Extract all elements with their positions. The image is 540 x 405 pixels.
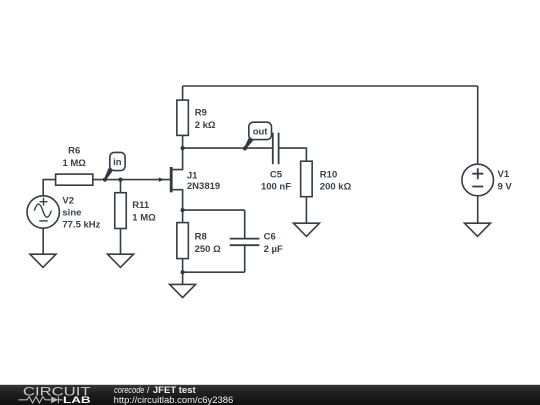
svg-text:77.5 kHz: 77.5 kHz bbox=[62, 220, 100, 231]
wire bottom rail C6 to R8 bbox=[183, 271, 245, 273]
svg-text:corecode: corecode bbox=[114, 385, 144, 395]
wire R8 top lead bbox=[182, 210, 184, 223]
svg-text:R8: R8 bbox=[195, 232, 207, 243]
voltage source V1 bbox=[462, 164, 513, 196]
resistor R9 bbox=[177, 100, 216, 135]
wire top rail bbox=[183, 85, 478, 87]
wire V2 to ground bbox=[42, 228, 44, 254]
svg-text:J1: J1 bbox=[187, 171, 198, 182]
node source junction dot bbox=[181, 208, 185, 212]
svg-text:250 Ω: 250 Ω bbox=[195, 244, 221, 255]
svg-text:V2: V2 bbox=[62, 195, 74, 206]
wire C6 bottom lead bbox=[244, 246, 246, 272]
resistor R10 bbox=[301, 161, 352, 197]
wire R6 left lead to V2 bbox=[43, 180, 55, 196]
node out junction dot bbox=[243, 146, 247, 150]
wire R9 bottom lead bbox=[182, 135, 184, 148]
ground (R11) bbox=[108, 254, 134, 267]
node R8 bottom junction dot bbox=[181, 270, 185, 274]
wire C6 top lead bbox=[244, 210, 246, 238]
node in (junction dot) bbox=[103, 178, 107, 182]
transistor J1 (N-JFET 2N3819) bbox=[159, 148, 220, 210]
svg-text:200 kΩ: 200 kΩ bbox=[320, 182, 352, 193]
wire V1 top lead bbox=[477, 86, 479, 164]
node R11 junction dot bbox=[118, 178, 122, 182]
ground (V1) bbox=[465, 223, 491, 236]
wire R11 top lead bbox=[120, 180, 122, 193]
capacitor C5 bbox=[261, 133, 291, 193]
resistor R8 bbox=[177, 223, 221, 259]
wire R10 to ground bbox=[305, 197, 307, 224]
capacitor C6 bbox=[230, 232, 283, 255]
svg-text:sine: sine bbox=[62, 207, 81, 218]
ground (R10) bbox=[293, 223, 319, 236]
svg-text:JFET test: JFET test bbox=[153, 385, 196, 395]
wire drain rail to C5 bbox=[183, 147, 273, 149]
svg-text:R9: R9 bbox=[195, 108, 207, 119]
svg-text:R10: R10 bbox=[320, 169, 337, 180]
svg-text:1 MΩ: 1 MΩ bbox=[132, 212, 156, 223]
svg-text:9 V: 9 V bbox=[498, 182, 513, 193]
resistor R6 bbox=[56, 146, 93, 186]
svg-text:V1: V1 bbox=[498, 169, 510, 180]
svg-text:C6: C6 bbox=[264, 232, 276, 243]
net flag out bbox=[244, 122, 271, 149]
wire R11 to ground bbox=[120, 229, 122, 255]
wire C5 to R10 bbox=[279, 148, 307, 161]
svg-text:C5: C5 bbox=[270, 169, 283, 180]
svg-text:2N3819: 2N3819 bbox=[187, 181, 220, 192]
svg-text:in: in bbox=[113, 157, 122, 168]
svg-text:R11: R11 bbox=[132, 200, 150, 211]
svg-text:1 MΩ: 1 MΩ bbox=[62, 158, 86, 169]
svg-text:100 nF: 100 nF bbox=[261, 182, 291, 193]
wire R8 node to ground bbox=[182, 272, 184, 284]
svg-text:out: out bbox=[253, 126, 269, 137]
svg-text:LAB: LAB bbox=[63, 395, 91, 405]
wire V1 to ground bbox=[477, 196, 479, 223]
wire gate rail bbox=[93, 179, 170, 181]
svg-text:http://circuitlab.com/c6y2386: http://circuitlab.com/c6y2386 bbox=[114, 395, 234, 405]
wire R9 top lead bbox=[182, 86, 184, 100]
wire R8 bottom lead bbox=[182, 259, 184, 273]
CircuitLab logo bbox=[19, 385, 92, 405]
wire source rail to C6 bbox=[183, 209, 245, 211]
svg-text:2 µF: 2 µF bbox=[264, 244, 283, 255]
resistor R11 bbox=[115, 193, 156, 229]
ground (V2) bbox=[30, 254, 56, 267]
svg-text:2 kΩ: 2 kΩ bbox=[195, 120, 216, 131]
voltage source V2 (sine) bbox=[27, 195, 101, 230]
footer title text bbox=[114, 385, 234, 405]
svg-text:R6: R6 bbox=[68, 146, 80, 157]
ground (R8) bbox=[170, 284, 196, 297]
node drain junction dot bbox=[181, 146, 185, 150]
net flag in bbox=[104, 152, 125, 180]
